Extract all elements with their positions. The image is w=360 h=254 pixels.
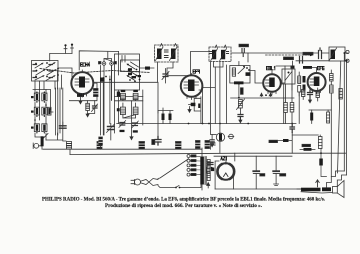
resistor V1 (284, 84, 288, 124)
trimmer T2 (88, 101, 98, 114)
heater choke CH3 (139, 142, 145, 150)
cathode network EF9 (189, 97, 201, 124)
IF1 coil a (156, 47, 164, 61)
wire right slant (338, 61, 341, 173)
osc contacts dots (127, 64, 137, 77)
wire switch to tube grid (58, 68, 72, 79)
label EF6 (318, 66, 325, 69)
ladder rail right (142, 90, 144, 125)
tube EF6 envelope (308, 73, 326, 91)
heater choke CH1 (67, 142, 72, 155)
tube EF9 envelope (181, 75, 203, 97)
mains cord (141, 179, 159, 186)
transformer core (205, 157, 206, 185)
AVC line (231, 97, 294, 99)
label 50000 C9 (284, 57, 294, 60)
heater jack J1 (33, 143, 42, 149)
label EBL1 (267, 66, 275, 69)
tube EBL1 electrodes (266, 78, 275, 88)
wire IF2 out (214, 53, 249, 67)
junction dots osc (102, 76, 110, 81)
component on anode line (100, 78, 105, 82)
label 50000b (269, 140, 278, 142)
wire right rail2 (346, 61, 348, 175)
junction dots right (343, 52, 347, 62)
wire coil bank rails (35, 90, 53, 121)
ground ECH4 (79, 101, 82, 104)
trimmer arrow C2 (107, 124, 115, 133)
padder row1 b (133, 90, 138, 100)
cap C7 (308, 90, 313, 100)
coil L1 (34, 93, 39, 101)
tone cap C10 (319, 149, 326, 177)
coil bank terminal dots (31, 92, 45, 134)
wire switch to coils (35, 70, 62, 90)
wire top right (248, 53, 348, 61)
cathode resistor ECH4 (77, 94, 84, 101)
speaker staircase wires (327, 171, 347, 188)
tube AZ1 electrodes (217, 163, 234, 179)
wire left rails (56, 88, 63, 135)
wire right rails long (343, 53, 345, 171)
cathode EBL1 arrows (260, 93, 272, 96)
coil L6 (42, 124, 47, 132)
resistor V3 (298, 72, 301, 96)
tone resistor vertical (318, 135, 322, 149)
bottom bus (215, 188, 301, 190)
wire top bus left (50, 53, 72, 61)
cap under label (242, 49, 244, 57)
wire bottom left (46, 133, 62, 140)
output transformer winding a (301, 188, 332, 193)
wire xfmr left (297, 188, 301, 190)
wire AZ1 out (234, 153, 235, 189)
power line vert x220 (219, 62, 221, 153)
tube EF9 electrodes (184, 74, 199, 92)
power line vert x209 (210, 62, 212, 149)
wire EBL1 top (272, 66, 292, 90)
output transformer winding b (322, 187, 331, 191)
filter cap Ca (253, 156, 259, 189)
top right box (329, 47, 345, 61)
wire osc rails (101, 66, 119, 136)
oscillator box (115, 54, 140, 90)
padder capacitor C1 (60, 126, 67, 128)
detector resistor Ra (232, 68, 235, 76)
resistor R6 (316, 88, 319, 101)
transformer taps (187, 155, 190, 177)
wire EF9 screen (199, 88, 215, 124)
trap coil L9 (330, 48, 337, 60)
IF2 coil a (211, 49, 218, 61)
cap power a (208, 163, 213, 165)
terminal A (102, 62, 106, 66)
label 8uF b (280, 174, 286, 176)
tube AZ1 envelope (218, 163, 235, 180)
wire ECH4 anode to IF1 (93, 62, 157, 82)
terminal P1 (346, 50, 349, 53)
switch contacts S1 (33, 63, 56, 81)
IF2 coil b (220, 49, 227, 61)
wire AZ1 box (214, 156, 292, 189)
svg-text:PHILIPS RADIO - Mod. BI 560/: PHILIPS RADIO - Mod. BI 560/A - Tre gamm… (42, 196, 326, 202)
tube EBL1 envelope (263, 74, 281, 92)
dashed AVC arrow (266, 54, 314, 56)
heater coil CH6 (205, 141, 210, 149)
band switch box S1 (32, 61, 59, 82)
resistor R3 pair (158, 108, 173, 124)
osc box bottom contacts (129, 75, 141, 82)
label 5000 (303, 52, 313, 55)
transformer secondary b (207, 172, 210, 181)
coil L8 (99, 137, 103, 149)
heater choke CH2 (97, 142, 102, 150)
capacitor C2 (108, 127, 115, 130)
antenna stub A (64, 44, 67, 53)
tone resistor R9 (300, 148, 315, 151)
ground ladder (130, 136, 133, 140)
speaker coil box (333, 187, 338, 194)
resistor power (207, 167, 210, 173)
resistor V2 (290, 84, 294, 124)
heater coil CH5 (196, 141, 201, 149)
transformer primary (200, 148, 204, 190)
oscillator inner box (121, 60, 140, 72)
junction dots coil bank (34, 104, 51, 121)
svg-text:Produzione di ripresa del mod.: Produzione di ripresa del mod. 666. Per … (105, 203, 263, 209)
detector arrow (238, 67, 245, 73)
grid resistor EF6 (303, 66, 317, 73)
wire right mid (283, 84, 285, 124)
switch dots (35, 62, 59, 77)
blob near C3 (152, 140, 155, 145)
pilot lamp (211, 133, 225, 141)
power line vert x215 (214, 67, 216, 124)
resistor R5 (278, 133, 292, 154)
label ECH4 (81, 63, 90, 66)
wire det to EBL1 (250, 71, 263, 84)
wire IF2 rail left (226, 65, 228, 124)
speaker cone (337, 181, 344, 198)
lamp cap and ground (210, 135, 214, 147)
cathode EF6 resistor (302, 87, 305, 100)
main mid hline (117, 123, 296, 125)
trimmer arrow T1 (42, 134, 48, 140)
heater line A (43, 148, 202, 150)
tone link line (292, 134, 318, 136)
resistor R2 (140, 67, 155, 70)
coil L3 (34, 107, 39, 115)
wire C2 (110, 124, 112, 141)
rect block (211, 168, 214, 172)
small cap osc rail (117, 92, 120, 98)
cap C5 (238, 115, 243, 120)
dashed mechanical coupling (40, 69, 150, 74)
wire ladder row2 (123, 103, 136, 118)
heater line B (70, 153, 346, 154)
label 50000 det (241, 88, 244, 95)
dot power (211, 167, 213, 169)
padder row2 a (117, 107, 126, 115)
coupling cap C9 (300, 57, 303, 64)
osc switch arrows (127, 62, 139, 81)
wire EF9 anode up (191, 52, 210, 76)
coil L4 (42, 107, 47, 115)
IF1 box dashed (155, 45, 179, 62)
connector bar (41, 136, 44, 146)
IF1 coil b (170, 47, 178, 61)
IF1 trim arrows top (160, 44, 177, 47)
IF2 box dashed (209, 47, 231, 62)
coil L2 (42, 93, 47, 101)
label 20000 (302, 144, 311, 146)
ground R1 (86, 114, 89, 117)
ground EF9 (188, 109, 191, 112)
tube pins EF9 (187, 96, 196, 100)
detector contacts (243, 66, 250, 76)
wire ECH4 right (69, 83, 97, 101)
wire padder (63, 122, 66, 141)
label 50000 (239, 44, 249, 47)
wire V3 down (298, 92, 300, 124)
detector box (230, 66, 250, 84)
heater caps (212, 143, 216, 145)
wire top to osc box (119, 52, 126, 76)
resistor below tone line (310, 113, 313, 121)
volume pot P1 (237, 99, 245, 114)
wire top bus right (79, 51, 118, 70)
cap C3 (155, 137, 161, 146)
tube pins EF6 (313, 90, 321, 94)
gramo switch contact (285, 72, 292, 81)
label 10000 det (234, 81, 244, 84)
tube ECH4 envelope (71, 72, 93, 94)
ground det (239, 120, 242, 123)
tube EF6 electrodes (310, 77, 319, 87)
junction dots det (238, 83, 240, 99)
phono jack (228, 134, 234, 139)
tube pins ECH4 (78, 93, 87, 97)
padder row3 b (132, 121, 139, 133)
label 8uF a (260, 174, 265, 176)
tube ECH4 electrodes (75, 70, 89, 88)
top right cap C8 (319, 48, 322, 59)
padder row3 a (119, 121, 126, 133)
coil L6b (48, 107, 51, 115)
trimmer T3 (162, 69, 169, 84)
wire IF1 to EF9 grid (167, 62, 188, 76)
wire coil bank (35, 103, 46, 141)
wire anode decoupling (157, 82, 159, 136)
IF2 trim arrows top (215, 45, 227, 48)
wire antenna down (104, 52, 112, 135)
terminal T (110, 62, 114, 66)
label A T (99, 62, 101, 64)
label EF9 (193, 70, 199, 73)
terminal P2 (346, 59, 349, 62)
IF2 trimcaps (210, 52, 229, 54)
resistor R7 right rail (330, 70, 334, 85)
cap C6 (290, 124, 295, 133)
tone line EF6 (309, 109, 331, 111)
junction dots midline (188, 123, 294, 125)
padder row1 a (120, 90, 125, 100)
mains wire top (158, 159, 189, 179)
resistor right tone (327, 110, 330, 123)
resistor on right rail (339, 89, 342, 100)
mains switch (175, 187, 180, 189)
ground power arrow (207, 183, 210, 189)
osc coil small (128, 68, 132, 75)
antenna stub B (71, 44, 74, 54)
resistor R8 right rail (330, 85, 334, 177)
chassis arrow (316, 180, 319, 187)
tap stems (190, 156, 200, 175)
label AZ1 (221, 157, 227, 160)
wire ladder row1 (115, 97, 143, 101)
wire EBL1 anode right (281, 66, 285, 83)
tube pins EBL1 (268, 91, 276, 95)
coil L7 (94, 89, 99, 97)
coil bank top wire (33, 89, 50, 91)
ladder rail mid (131, 101, 133, 136)
transformer secondary a (207, 160, 210, 169)
IF1 trimcaps (165, 50, 169, 58)
wire det down (238, 62, 240, 98)
gramo switch box (282, 69, 295, 84)
filter cap Cb (273, 156, 279, 185)
padder row2 b (133, 107, 138, 115)
resistor above box (291, 61, 295, 69)
mains plug (131, 179, 141, 185)
mains wire bottom (158, 185, 201, 188)
coil L5 (34, 124, 39, 132)
resistor R1 (86, 101, 90, 114)
ground EF6 (309, 100, 312, 103)
heater choke CH4 (176, 142, 182, 150)
resistor V4 (303, 76, 306, 91)
tap labels (191, 155, 196, 176)
wire resistor below (311, 110, 313, 124)
